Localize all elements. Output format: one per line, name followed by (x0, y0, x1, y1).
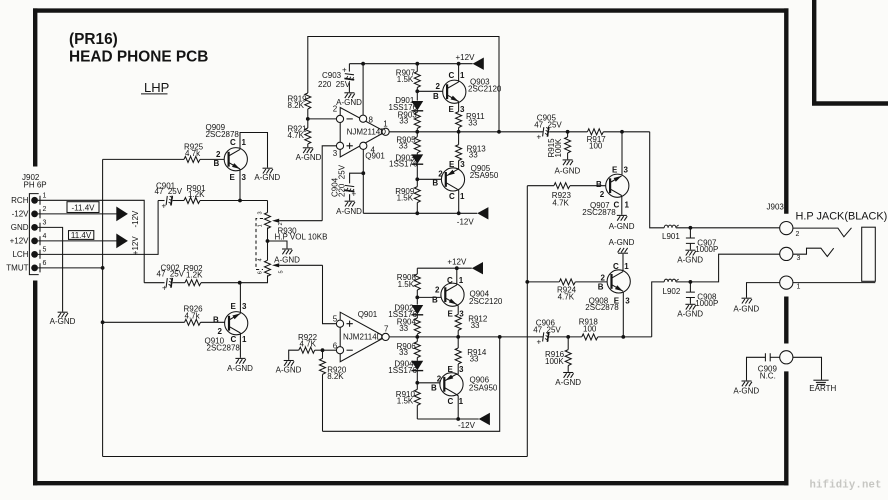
ground A-GND (R922) (284, 361, 294, 366)
svg-text:5: 5 (279, 270, 285, 273)
jack body sleeve (862, 227, 876, 281)
power flag +12V (top rail) (473, 58, 484, 70)
svg-text:33: 33 (399, 117, 408, 126)
capacitor C904 220 25V (330, 164, 363, 200)
wire pin1 RCH to down-riser (38, 200, 144, 282)
junction Q907 emitter tap (620, 130, 624, 134)
svg-text:A-GND: A-GND (555, 167, 581, 176)
svg-text:1.2K: 1.2K (186, 271, 203, 280)
ground A-GND (R916) (563, 373, 573, 378)
svg-text:NJM2114D: NJM2114D (343, 333, 383, 342)
capacitor C905 47 25V (534, 113, 562, 141)
connector pin 5 pad (31, 251, 38, 258)
svg-text:6: 6 (258, 271, 264, 274)
ground A-GND (C904) (345, 201, 355, 206)
wire gang B wiper to opamp pin5 riser (279, 264, 322, 266)
wire L902 to pin3 riser (676, 254, 780, 282)
svg-text:A-GND: A-GND (50, 317, 76, 326)
wire R918 to corner column (598, 336, 652, 338)
junction Q905 base node (415, 177, 419, 181)
potentiometer R930 H.P VOL 10KB gang A (265, 213, 328, 242)
junction node row / mid rail (415, 130, 419, 134)
junction Q904 base node (415, 296, 419, 300)
junction feedback column bottom (498, 335, 502, 339)
svg-text:4.7k: 4.7k (185, 149, 201, 158)
svg-text:C903: C903 (322, 71, 342, 80)
svg-text:L901: L901 (662, 232, 680, 241)
wire Q910 collector to ground (239, 333, 241, 358)
wire jack pin1 to body (793, 282, 875, 284)
svg-text:A-GND: A-GND (609, 238, 635, 247)
svg-text:GND: GND (11, 223, 29, 232)
svg-text:B: B (598, 283, 604, 292)
power flag -12V (input) (116, 207, 128, 222)
wire R901 to node A (200, 200, 268, 202)
wire Q904 base (417, 295, 441, 298)
junction C904 tap (361, 171, 365, 175)
svg-text:E: E (449, 160, 455, 169)
resistor R926 4.7k (184, 305, 204, 326)
wire C902 to R902 (173, 282, 185, 284)
wire Q910 emitter to node B (239, 283, 242, 314)
wire Q906 collector to -12V rail (456, 394, 458, 419)
svg-text:2: 2 (601, 273, 606, 282)
transistor Q904 2SC2120 (432, 276, 503, 318)
wire opamp output pin1 to node row (389, 131, 417, 133)
junction pot mid node (266, 239, 270, 243)
wire pin3 GND to A-GND (38, 227, 63, 311)
svg-text:2SC2120: 2SC2120 (469, 297, 503, 306)
wire C906 to R918 (549, 336, 582, 338)
wire jack pin1 to ground (747, 283, 780, 298)
svg-text:TMUT: TMUT (6, 264, 28, 273)
capacitor C906 47 25V (533, 319, 561, 347)
-12V rail top block (363, 212, 477, 214)
ground A-GND (pot) (282, 249, 292, 254)
wire opamp output pin7 to node row (389, 336, 417, 338)
op-amp U bottom half NJM2114D (333, 310, 390, 362)
wire mute to R925 (103, 158, 184, 160)
resistor R917 100 (587, 129, 607, 151)
svg-text:4: 4 (258, 258, 264, 261)
svg-text:8: 8 (369, 116, 374, 125)
svg-text:-12V: -12V (458, 421, 476, 430)
wire pot wiper riser to opamp pin3 (322, 146, 336, 221)
resistor R921 4.7K (288, 124, 311, 144)
svg-text:B: B (432, 179, 438, 188)
svg-text:1.5K: 1.5K (397, 75, 414, 84)
svg-text:+12V: +12V (131, 236, 140, 256)
ground A-GND (R915) (563, 160, 573, 165)
svg-text:RCH: RCH (11, 196, 29, 205)
jack pin2 contact spring (793, 228, 852, 237)
resistor R906 33 (397, 337, 421, 361)
svg-text:33: 33 (471, 321, 480, 330)
wire R926 to Q910 base (201, 321, 225, 323)
svg-text:2: 2 (438, 170, 443, 179)
wire Q903 collector to +12V rail (458, 64, 460, 82)
power flag +12V (bottom block) (472, 262, 483, 274)
svg-text:8.2K: 8.2K (288, 101, 305, 110)
node row wire LCH output (417, 336, 543, 338)
svg-text:HEAD PHONE PCB: HEAD PHONE PCB (69, 49, 208, 66)
junction Q906 base node (415, 381, 419, 385)
svg-text:B: B (433, 92, 439, 101)
power flag +12V (input) (116, 234, 128, 249)
svg-text:1: 1 (43, 192, 47, 199)
svg-text:2: 2 (43, 206, 47, 213)
ground A-GND (Q907) (617, 215, 627, 220)
resistor R920 8.2K (320, 350, 347, 431)
resistor R901 1.2K (184, 184, 206, 204)
ground A-GND (R921) (303, 148, 313, 153)
-12V rail bottom block (417, 418, 478, 420)
svg-text:-11.4V: -11.4V (72, 203, 96, 212)
svg-text:4.7K: 4.7K (552, 199, 569, 208)
wire mute line bottom horizontal (103, 456, 528, 458)
junction R924 mute line (525, 280, 529, 284)
wire R925 to Q909 base (200, 158, 224, 160)
resistor R925 4.7k (184, 143, 204, 163)
connector J902 body (29, 194, 40, 275)
svg-text:A-GND: A-GND (336, 98, 362, 107)
resistor R909 1.5K (395, 187, 420, 214)
power flag -12V (bottom block) (479, 413, 490, 425)
svg-text:3: 3 (242, 173, 247, 182)
svg-text:2SC2878: 2SC2878 (206, 130, 240, 139)
wire Q908 emitter riser (622, 292, 624, 337)
svg-text:C: C (449, 71, 455, 80)
wire mute to R926 (103, 321, 185, 323)
svg-text:E: E (448, 309, 454, 318)
svg-text:H.P JACK(BLACK): H.P JACK(BLACK) (796, 211, 888, 223)
svg-text:+12V: +12V (10, 237, 30, 246)
junction node A (RCH top) (238, 199, 242, 203)
wire Q907 emitter riser (621, 132, 623, 175)
svg-text:100K: 100K (545, 357, 564, 366)
svg-text:+: + (342, 66, 347, 75)
capacitor C901 47 25V (155, 181, 183, 210)
connector pin 3 pad (31, 224, 38, 231)
wire LCH row to C901 (158, 200, 164, 202)
power flag -12V (top block) (477, 207, 488, 219)
resistor R923 4.7K (527, 183, 606, 208)
junction pin6 node (321, 348, 325, 352)
wire Q905 collector to -12V rail (457, 189, 458, 213)
junction Q904 collector rail (455, 266, 459, 270)
junction Q906 collector rail (456, 417, 460, 421)
wire pin4 to +12V flag (38, 240, 117, 242)
resistor R914 33 (455, 337, 487, 374)
svg-text:47 25V: 47 25V (157, 270, 185, 279)
junction C907 tap (689, 226, 693, 230)
resistor R911 33 (456, 102, 485, 132)
resistor R908 1.5K (397, 268, 421, 304)
resistor R904 33 (397, 315, 421, 337)
svg-text:1: 1 (242, 335, 247, 344)
svg-text:3: 3 (43, 219, 47, 226)
svg-text:8.2K: 8.2K (327, 372, 344, 381)
border main frame top (33, 8, 789, 12)
connector pin 4 pad (31, 238, 38, 245)
svg-text:3: 3 (460, 105, 465, 114)
svg-text:LCH: LCH (12, 250, 28, 259)
transistor Q909 2SC2878 (206, 123, 248, 182)
+12V rail bottom block (417, 267, 472, 269)
svg-text:3: 3 (625, 297, 630, 306)
junction Q903 collector rail (457, 62, 461, 66)
svg-text:2SA950: 2SA950 (469, 384, 498, 393)
svg-text:1SS176: 1SS176 (389, 160, 418, 169)
wire junction to opamp pin2 (308, 118, 337, 120)
svg-text:220 25V: 220 25V (337, 164, 346, 197)
wire pin6 TMUT (38, 267, 103, 269)
svg-text:A-GND: A-GND (555, 378, 581, 387)
+12V rail top (349, 63, 472, 65)
wire gang A wiper to opamp pin3 riser (279, 220, 322, 222)
wire pot mid node to ground (268, 241, 288, 248)
svg-text:B: B (214, 159, 220, 168)
jack pin3 contact spring (793, 248, 834, 256)
wire RCH out column down to L901 (650, 132, 665, 228)
svg-text:EARTH: EARTH (809, 384, 836, 393)
border main frame right upper segment (784, 8, 788, 213)
wire feedback bottom (323, 336, 500, 431)
border main frame right middle segment (784, 297, 788, 344)
svg-text:A-GND: A-GND (677, 309, 703, 318)
border main frame bottom (33, 481, 789, 485)
svg-text:H.P VOL 10KB: H.P VOL 10KB (275, 233, 328, 242)
svg-text:6: 6 (333, 341, 338, 350)
svg-text:4.7K: 4.7K (288, 131, 305, 140)
wire pin2 to -12V flag (38, 213, 117, 215)
connector pin 2 pad (31, 211, 38, 218)
transistor Q908 2SC2878 (585, 262, 630, 312)
transistor Q907 2SC2878 (582, 166, 629, 218)
svg-text:1: 1 (797, 284, 801, 291)
svg-text:1.5K: 1.5K (397, 397, 414, 406)
svg-text:A-GND: A-GND (227, 364, 253, 373)
svg-text:hifidiy.net: hifidiy.net (810, 480, 882, 492)
svg-text:L902: L902 (663, 287, 681, 296)
svg-text:Q901: Q901 (358, 310, 378, 319)
resistor R912 33 (455, 305, 488, 337)
svg-text:33: 33 (399, 142, 408, 151)
svg-text:2: 2 (435, 286, 440, 295)
svg-text:5: 5 (43, 246, 47, 253)
junction feedback column (497, 130, 501, 134)
svg-text:1.2K: 1.2K (188, 190, 205, 199)
svg-text:B: B (432, 295, 438, 304)
wire Q909 collector to A-GND (240, 133, 268, 168)
svg-text:3: 3 (333, 149, 338, 158)
svg-text:4.7K: 4.7K (300, 339, 317, 348)
diode D903 1SS176 (389, 153, 423, 168)
svg-text:+12V: +12V (456, 53, 476, 62)
resistor R902 1.2K (184, 264, 204, 286)
svg-text:1.5K: 1.5K (398, 280, 415, 289)
resistor R907 1.5K (396, 64, 421, 101)
svg-text:2: 2 (600, 190, 605, 199)
svg-text:2: 2 (218, 327, 223, 336)
svg-text:-12V: -12V (12, 210, 30, 219)
svg-text:E: E (231, 302, 237, 311)
inductor L901 (662, 225, 680, 241)
earth ground symbol (809, 380, 836, 393)
transistor Q905 2SA950 (432, 160, 498, 201)
potentiometer R930 gang B (265, 260, 280, 276)
svg-text:4.7k: 4.7k (185, 311, 201, 320)
svg-text:+: + (352, 190, 357, 199)
wire node A down to pot gang A (267, 201, 269, 213)
svg-text:-12V: -12V (457, 217, 475, 226)
wire LCH out column up to L902 (652, 282, 665, 337)
svg-text:2: 2 (796, 231, 800, 238)
resistor R915 100K (547, 132, 571, 160)
svg-text:33: 33 (399, 324, 408, 333)
svg-text:1: 1 (459, 276, 464, 285)
pot coupling dashed box (256, 219, 263, 270)
resistor R922 4.7K (289, 333, 323, 360)
transistor Q906 2SA950 (431, 365, 498, 406)
capacitor C908 1000P (686, 282, 718, 308)
border main frame left upper segment (33, 8, 37, 166)
svg-text:2SC2120: 2SC2120 (468, 85, 502, 94)
svg-text:N.C.: N.C. (760, 372, 776, 381)
svg-text:100: 100 (589, 141, 603, 150)
svg-text:PH 6P: PH 6P (24, 181, 47, 190)
junction node row bottom / mid rail (415, 335, 419, 339)
resistor R916 100K (545, 337, 571, 372)
capacitor C903 220 25V (318, 64, 354, 92)
svg-text:1000P: 1000P (695, 245, 718, 254)
op-amp U top half NJM2114D (333, 105, 390, 161)
svg-text:-12V: -12V (131, 210, 140, 228)
ground A-GND (Q908, inverted) (618, 248, 628, 253)
svg-text:2SC2878: 2SC2878 (207, 344, 241, 353)
svg-text:7: 7 (384, 325, 389, 334)
border main frame left lower segment (33, 281, 37, 486)
svg-text:E: E (448, 365, 454, 374)
resistor R913 33 (456, 132, 487, 169)
wire C901 to R901 (173, 200, 184, 202)
wire R919 to junction (307, 109, 309, 128)
wire Q907 collector to ground (621, 196, 623, 215)
svg-text:+: + (537, 133, 542, 142)
svg-text:47 25V: 47 25V (155, 187, 183, 196)
svg-text:2: 2 (278, 222, 284, 225)
wire opamp pin6 to junction (323, 349, 337, 351)
svg-text:3: 3 (258, 211, 264, 214)
voltage box 11.4V (69, 231, 94, 240)
wire D903 to R909 with Q905 base tap (416, 164, 418, 187)
wire R902 to node B and pot gang B bottom (201, 275, 268, 282)
wire Q905 base (417, 178, 441, 180)
wire Q909 emitter to node A (239, 169, 241, 201)
svg-text:3: 3 (624, 166, 629, 175)
svg-text:A-GND: A-GND (677, 255, 703, 264)
svg-text:+12V: +12V (447, 257, 467, 266)
resistor R910 1.5K (396, 389, 421, 419)
diode D904 1SS176 (388, 359, 423, 375)
svg-text:1.5K: 1.5K (397, 193, 414, 202)
wire pin5 LCH to up-riser (38, 201, 158, 255)
wire mute line vertical left (102, 159, 104, 456)
voltage box -11.4V (67, 202, 99, 213)
svg-text:A-GND: A-GND (733, 305, 759, 314)
junction Q908 emitter tap (621, 335, 625, 339)
junction R909 rail (415, 211, 419, 215)
junction R916 tap (566, 335, 570, 339)
svg-text:2SC2878: 2SC2878 (582, 208, 616, 217)
svg-text:3: 3 (242, 302, 247, 311)
wire R921 to ground (307, 144, 309, 147)
junction inverting input node (306, 117, 310, 121)
svg-text:C: C (614, 201, 620, 210)
svg-text:100K: 100K (554, 138, 563, 157)
junction node B (LCH bottom) (238, 281, 242, 285)
wire pot mid node to gang B (267, 241, 269, 260)
svg-text:E: E (230, 173, 236, 182)
svg-text:+: + (537, 338, 542, 347)
svg-text:1: 1 (460, 192, 465, 201)
resistor R903 33 (398, 110, 421, 131)
capacitor C909 N.C. (747, 353, 780, 380)
svg-text:B: B (596, 180, 602, 189)
capacitor C902 47 25V (157, 264, 185, 293)
ground A-GND (Q909 collector) (263, 168, 273, 173)
svg-text:A-GND: A-GND (276, 366, 302, 375)
wire pot wiper B riser to opamp pin5 (323, 265, 337, 323)
wire R917 to corner column (603, 131, 649, 133)
jack pin 2 terminal (780, 222, 793, 235)
wire Q904 collector to +12V rail (456, 268, 458, 285)
svg-text:47 25V: 47 25V (533, 326, 561, 335)
svg-text:A-GND: A-GND (274, 256, 300, 265)
svg-text:33: 33 (468, 119, 477, 128)
svg-text:C: C (449, 192, 455, 201)
svg-text:LHP: LHP (144, 80, 169, 95)
wire feedback top: R919 top to output column (308, 37, 499, 132)
junction R912 node row (456, 335, 460, 339)
junction TMUT (101, 266, 105, 270)
wire Q906 emitter to R914 (456, 373, 458, 375)
wire mute line vertical right (526, 186, 528, 457)
svg-text:33: 33 (469, 151, 478, 160)
svg-text:3: 3 (797, 255, 801, 262)
svg-text:11.4V: 11.4V (71, 231, 92, 240)
svg-text:E: E (612, 166, 618, 175)
ground A-GND (C908) (685, 304, 695, 309)
svg-text:+: + (162, 202, 167, 211)
junction Q903 base node (415, 89, 419, 93)
jack pin 3 terminal (780, 247, 793, 260)
svg-text:A-GND: A-GND (609, 222, 635, 231)
svg-text:C: C (230, 138, 236, 147)
svg-text:4: 4 (43, 233, 47, 240)
resistor R924 4.7K (527, 279, 607, 302)
wire opamp pin4 down to -12V rail (362, 149, 364, 213)
wire RCH riser to C902 (144, 282, 164, 284)
svg-text:+: + (162, 284, 167, 293)
capacitor C907 1000P (686, 228, 718, 254)
wire Q906 base (417, 383, 440, 385)
svg-text:Q901: Q901 (365, 151, 385, 160)
junction R911 node row (457, 130, 461, 134)
svg-text:220 25V: 220 25V (318, 80, 351, 89)
svg-text:C: C (448, 397, 454, 406)
border second sheet corner top-right (814, 0, 888, 104)
